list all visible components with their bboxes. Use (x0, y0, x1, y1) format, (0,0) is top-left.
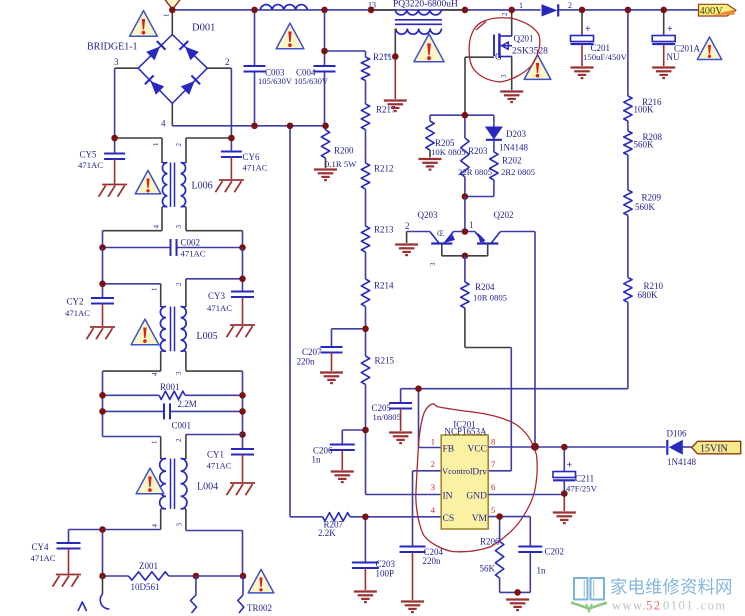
bridge pin label 4 (161, 119, 166, 129)
svg-text:!: ! (146, 472, 154, 497)
svg-text:Z001: Z001 (139, 561, 158, 571)
inductor L005 (160, 279, 217, 371)
svg-text:R213: R213 (374, 225, 394, 235)
junction top bus Q201-drain (508, 7, 515, 14)
junction L005 pin2 (239, 276, 246, 283)
Q201 pin label 3 (500, 74, 508, 78)
capacitor C202 (518, 547, 564, 593)
L005 pin label 3 (175, 371, 183, 375)
wire R204 to Drv (465, 308, 511, 471)
resistor R211 (361, 52, 392, 81)
transformer PQ3220 primary winding (395, 10, 441, 15)
junction AC bus R200 (322, 123, 329, 130)
connector caret mark (78, 602, 87, 611)
wire long vertical to R207 (289, 126, 291, 517)
ground below C201 (571, 68, 594, 79)
svg-text:150uF/450V: 150uF/450V (583, 52, 628, 62)
svg-text:CY2: CY2 (67, 297, 84, 307)
svg-text:10R 0805: 10R 0805 (473, 293, 507, 303)
svg-text:47F/25V: 47F/25V (566, 484, 598, 494)
svg-text:471AC: 471AC (31, 553, 56, 563)
svg-text:C203: C203 (376, 559, 396, 569)
capacitor CY2 (65, 297, 114, 327)
ground below Q203 base (395, 245, 418, 256)
junction VM bottom (514, 589, 521, 596)
wire bridge pin1 lead (171, 10, 173, 35)
capacitor CY6 (221, 138, 268, 179)
wire R217-R212 (365, 130, 367, 163)
node 1 label (469, 220, 474, 230)
junction L004 pin4 rail (99, 526, 106, 533)
svg-text:2: 2 (175, 282, 183, 286)
resistor R204 (461, 256, 507, 308)
bridge diode lower-left (145, 76, 164, 95)
svg-text:CY5: CY5 (80, 150, 98, 160)
watermark url (612, 599, 727, 613)
resistor R212 (361, 163, 393, 189)
wire VM bottom rail (500, 591, 531, 593)
svg-text:1n: 1n (537, 566, 547, 576)
svg-text:CY6: CY6 (243, 152, 261, 162)
wire Q203 base lead (407, 232, 430, 244)
svg-text:10D561: 10D561 (131, 582, 160, 592)
L006 pin label 2 (175, 143, 183, 147)
svg-text:471AC: 471AC (207, 461, 232, 471)
svg-text:100P: 100P (376, 569, 395, 579)
svg-text:1: 1 (151, 287, 159, 291)
svg-text:FB: FB (443, 445, 455, 455)
wire node1 vertical (464, 197, 466, 232)
wire right rail to CY3 (242, 248, 244, 292)
wire R213-R214 (365, 252, 367, 279)
transformer pin label 2 (383, 53, 391, 57)
junction Z001 right (240, 573, 247, 580)
Q201 pin label 2 (501, 12, 509, 16)
wire transformer secondary lead (394, 29, 396, 100)
resistor R202 (465, 140, 535, 197)
label TR002 (247, 603, 272, 613)
L006 pin label 4 (153, 225, 161, 229)
junction L005 pin1 (99, 281, 106, 288)
svg-text:3: 3 (429, 262, 437, 266)
svg-text:100K: 100K (634, 105, 655, 115)
wire L004 pin1 feed (103, 436, 161, 438)
IC201 pin 6 GND (466, 482, 495, 502)
wire bridge pin2 lead (207, 68, 231, 138)
transistor Q201 2SK3528 symbol (494, 34, 548, 63)
IC201 pin 1 FB (431, 437, 454, 455)
svg-text:D106: D106 (667, 429, 687, 439)
inductor filter coil on bus (260, 5, 307, 10)
svg-text:R204: R204 (475, 282, 495, 292)
svg-text:C211: C211 (575, 474, 594, 484)
capacitor CY4 (31, 530, 81, 574)
IC201 pin 2 Vcontrol (431, 459, 473, 476)
junction IN node (362, 427, 369, 434)
svg-text:L005: L005 (197, 331, 218, 342)
wire Vcontrol path (413, 471, 442, 547)
IC201 pin 4 CS (431, 505, 454, 524)
junction GND-C211 (561, 490, 568, 497)
warning triangle near L006 (135, 170, 161, 197)
svg-text:!: ! (706, 41, 713, 63)
diode D106 (667, 429, 697, 468)
svg-text:2R2 0805: 2R2 0805 (501, 167, 535, 177)
svg-text:2: 2 (405, 221, 410, 231)
ground below C207 (320, 373, 343, 384)
svg-text:4: 4 (153, 225, 161, 229)
ground below C205 (389, 433, 412, 444)
svg-text:3: 3 (114, 57, 119, 67)
ground below C211 (553, 513, 576, 524)
400V net flag (699, 4, 737, 16)
junction gate node (462, 112, 469, 119)
resistor R214 (361, 279, 394, 307)
bridge label BRIDGE1-1 (87, 42, 138, 53)
bridge pin label 2 (225, 57, 230, 67)
capacitor C203 (352, 517, 396, 590)
ground below R206 C202 (506, 600, 529, 611)
Q pair pin label 3 (429, 262, 437, 266)
wire C004 branch (324, 10, 326, 126)
wire VCC net (488, 446, 666, 448)
svg-text:R202: R202 (502, 156, 522, 166)
svg-text:1N4148: 1N4148 (667, 457, 696, 467)
svg-text:471AC: 471AC (207, 303, 232, 313)
svg-text:2: 2 (175, 143, 183, 147)
ground below C206 (331, 472, 354, 483)
capacitor CY5 (78, 138, 125, 184)
svg-text:220n: 220n (423, 556, 442, 566)
wire R211 top feed (325, 51, 366, 57)
bridge rectifier D001 outline (138, 35, 207, 104)
capacitor C002 (103, 238, 243, 259)
wire R chain top (627, 10, 629, 96)
svg-text:52: 52 (646, 599, 662, 613)
junction top bus Rchain (625, 7, 632, 14)
svg-text:Drv: Drv (472, 468, 487, 478)
transformer label PQ3220-6800uH (393, 0, 458, 10)
wire VM net (488, 517, 530, 547)
red hand-drawn circle around IC201 (416, 404, 537, 552)
svg-text:3: 3 (175, 225, 183, 229)
wire R215 to IN node (365, 385, 367, 431)
warning triangle between C003 and C004 (276, 23, 304, 52)
svg-text:0101: 0101 (663, 599, 694, 613)
diode pin label 2 (568, 1, 572, 10)
junction R203 bottom node (462, 193, 469, 200)
junction top bus C004 (321, 7, 328, 14)
ground below CY5 chassis (99, 185, 128, 197)
resistor R216 (624, 96, 662, 121)
L006 pin label 3 (175, 225, 183, 229)
Q203 pin label 2 (405, 221, 410, 231)
junction emitter rail (462, 253, 469, 260)
ground below C204 (401, 602, 424, 613)
wire L004 pin3 rail (186, 531, 243, 577)
junction top bus C003 (251, 7, 258, 14)
transformer pin label 13 (368, 1, 376, 10)
wire L006 pin4 to left rail (103, 231, 163, 248)
wire L006 to CY6 (186, 137, 231, 139)
wire to TR002 (238, 576, 244, 613)
ground below R205 (419, 159, 442, 170)
resistor R206 (480, 517, 504, 593)
svg-text:www.: www. (612, 599, 647, 613)
svg-text:G: G (495, 53, 502, 63)
svg-text:D001: D001 (192, 23, 215, 34)
svg-text:C001: C001 (172, 421, 192, 431)
wire R209-R210 (627, 215, 629, 277)
svg-text:!: ! (141, 323, 149, 348)
transistor Q202 (475, 210, 514, 256)
svg-text:VM: VM (472, 514, 488, 524)
ground below Q201 source (500, 92, 523, 103)
junction VM pin (496, 513, 503, 520)
wire R210 to FB node (401, 302, 628, 388)
capacitor C201 (571, 10, 628, 66)
junction node1 (462, 228, 469, 235)
svg-text:1: 1 (431, 437, 435, 447)
junction CY5 node (111, 135, 118, 142)
svg-text:R215: R215 (375, 356, 395, 366)
IC201 pin 3 IN (431, 482, 453, 502)
svg-text:CS: CS (443, 514, 455, 524)
wire Q201 source lead (511, 57, 513, 91)
junction C001 right (239, 408, 246, 415)
wire CY5 to L006 (115, 137, 162, 139)
svg-text:15VIN: 15VIN (700, 444, 728, 455)
svg-text:Q203: Q203 (418, 210, 438, 220)
ground below C201A (652, 68, 675, 79)
wire L004 pin2 feed (186, 434, 243, 436)
svg-text:4: 4 (161, 119, 166, 129)
svg-text:1n: 1n (312, 455, 322, 465)
svg-text:2.2K: 2.2K (318, 528, 336, 538)
svg-text:1: 1 (151, 440, 159, 444)
svg-text:R206: R206 (480, 537, 500, 547)
bridge diode upper-left (146, 41, 165, 60)
svg-text:3: 3 (176, 523, 184, 527)
junction FB node (415, 385, 422, 392)
svg-text:105/630V: 105/630V (258, 76, 293, 86)
junction C002 right (239, 244, 246, 251)
wire bridge pin4 lead (171, 103, 173, 125)
svg-text:Vcontrol: Vcontrol (442, 466, 473, 476)
wire to connector mid (191, 576, 197, 613)
wire Q202 to VCC vertical (500, 232, 535, 447)
svg-text:105/630V: 105/630V (294, 76, 329, 86)
svg-text:2SK3528: 2SK3528 (512, 47, 548, 57)
capacitor CY1 (207, 435, 255, 483)
junction CY1 top (239, 431, 246, 438)
warning triangle cut off at top edge (165, 0, 181, 10)
capacitor C003 (244, 66, 293, 86)
inductor L004 (160, 435, 218, 531)
wire bus black segment at transformer (371, 9, 465, 11)
15VIN net flag (692, 441, 741, 454)
ground below C203 (354, 592, 377, 603)
svg-text:4: 4 (151, 524, 159, 528)
svg-text:1n/0805: 1n/0805 (373, 412, 401, 422)
svg-text:Œ: Œ (437, 229, 444, 238)
svg-text:R217: R217 (376, 105, 396, 115)
L004 pin label 2 (175, 438, 183, 442)
svg-text:3: 3 (431, 482, 435, 492)
junction VCC-C211 (561, 444, 568, 451)
wire to connector left (100, 576, 109, 609)
wire L005 pin3 to right rail (186, 371, 243, 434)
svg-text:+: + (567, 460, 573, 471)
wire CS path (290, 516, 441, 518)
svg-text:471AC: 471AC (181, 249, 206, 259)
warning triangle near TR002 (248, 569, 274, 596)
svg-text:C002: C002 (181, 238, 201, 248)
bridge diode lower-right (181, 76, 200, 95)
svg-text:+: + (667, 24, 673, 35)
wire gate node horizontal (430, 114, 494, 116)
junction Z001 mid (193, 573, 200, 580)
wire node1 horizontal (454, 231, 475, 233)
watermark book icon (571, 578, 607, 611)
resistor R200 (321, 126, 357, 169)
wire C003 branch (254, 10, 256, 126)
ground below CY2 chassis (87, 327, 116, 339)
junction AC bus vert (287, 123, 294, 130)
wire FB node vertical (419, 389, 442, 448)
junction VCC-Q202 (531, 443, 539, 451)
svg-text:3: 3 (500, 74, 508, 78)
svg-text:PQ3220-6800uH: PQ3220-6800uH (393, 0, 458, 10)
junction node R211 top (321, 48, 328, 55)
svg-text:Q201: Q201 (514, 34, 534, 44)
wire L006 pin3 to right rail (186, 231, 243, 248)
resistor R210 (624, 278, 664, 303)
wire GND pin net (488, 494, 564, 496)
svg-text:680K: 680K (638, 290, 659, 300)
wire C211 to ground (563, 494, 565, 511)
svg-text:+: + (585, 24, 591, 35)
svg-text:8: 8 (491, 437, 495, 447)
svg-text:NCP1653A: NCP1653A (444, 427, 487, 437)
junction top bus C201A (660, 7, 667, 14)
svg-text:R212: R212 (374, 164, 394, 174)
transformer PQ3220 core (395, 20, 442, 25)
resistor R207 (318, 513, 350, 538)
L004 pin label 4 (151, 524, 159, 528)
warning triangle near transformer (414, 34, 444, 66)
svg-text:R200: R200 (334, 146, 354, 156)
junction top bus trafo-left (368, 7, 375, 14)
wire emitter rail (442, 255, 488, 257)
svg-text:2: 2 (431, 459, 435, 469)
svg-text:TR002: TR002 (247, 603, 272, 613)
ground below CY1 chassis (227, 483, 256, 495)
svg-text:471AC: 471AC (243, 163, 268, 173)
capacitor C004 (294, 66, 336, 86)
svg-text:R001: R001 (160, 382, 180, 392)
svg-text:CY3: CY3 (208, 291, 226, 301)
watermark chinese text (610, 577, 733, 597)
capacitor C206 (312, 430, 366, 470)
svg-text:Q202: Q202 (494, 210, 514, 220)
warning triangle near Q201 (524, 55, 551, 83)
svg-text:2: 2 (501, 12, 509, 16)
svg-text:!: ! (145, 173, 152, 197)
resistor R208 (624, 131, 663, 155)
svg-text:GND: GND (466, 492, 487, 502)
junction top bus bridge (169, 7, 176, 14)
svg-text:5: 5 (491, 505, 495, 515)
svg-text:7: 7 (491, 459, 495, 469)
diode D203 (485, 115, 529, 152)
junction CS-C203 (362, 514, 369, 521)
junction C207 node (362, 326, 369, 333)
svg-text:4: 4 (151, 372, 159, 376)
wire left rail to CY2 (102, 248, 104, 299)
svg-text:560K: 560K (634, 140, 655, 150)
transistor Q203 (418, 210, 456, 256)
wire IN node (366, 430, 442, 495)
svg-text:22R 0805: 22R 0805 (458, 167, 492, 177)
svg-text:1: 1 (152, 142, 160, 146)
wire R214 to C207 node (365, 307, 367, 357)
junction transformer secondary (392, 53, 399, 60)
junction R001 left (99, 392, 106, 399)
svg-text:NU: NU (667, 52, 680, 62)
capacitor C204 (400, 547, 444, 601)
svg-text:56K: 56K (480, 564, 496, 574)
svg-text:2: 2 (225, 57, 230, 67)
wire R208-R209 (627, 155, 629, 190)
capacitor C211 (553, 447, 598, 494)
wire L005 pin4 to left rail (103, 371, 161, 436)
wire AC bus lower (172, 125, 325, 127)
resistor R203 (458, 115, 492, 196)
svg-text:CY4: CY4 (32, 542, 50, 552)
junction CY6 node (228, 135, 235, 142)
bridge pin label 1 (163, 13, 171, 17)
warning triangle near L004 (136, 468, 164, 497)
capacitor C207 with feed (297, 329, 366, 371)
svg-text:R214: R214 (374, 281, 394, 291)
transformer PQ3220 secondary winding (396, 29, 442, 35)
svg-text:220n: 220n (297, 357, 316, 367)
svg-text:2.2M: 2.2M (178, 399, 197, 409)
junction top bus gate (462, 7, 469, 14)
junction AC bus C003b (251, 123, 258, 130)
warning triangle near C201A (697, 37, 721, 63)
op-amp IC201 NCP1653A box (441, 420, 488, 530)
capacitor C001 (103, 403, 243, 430)
resistor R001 (103, 382, 243, 409)
L005 pin label 4 (151, 372, 159, 376)
svg-text:!: ! (286, 27, 294, 52)
svg-text:1N4148: 1N4148 (499, 143, 528, 153)
resistor R209 (624, 190, 662, 215)
red hand-drawn circle around Q201 (469, 18, 540, 82)
svg-text:471AC: 471AC (78, 160, 103, 170)
svg-text:IN: IN (443, 492, 453, 502)
svg-text:1: 1 (469, 220, 474, 230)
IC201 pin 8 VCC (467, 437, 495, 455)
junction C001 left (99, 408, 106, 415)
L004 pin label 3 (176, 523, 184, 527)
svg-text:!: ! (140, 15, 148, 40)
svg-text:C207: C207 (302, 347, 322, 357)
svg-text:6: 6 (491, 482, 495, 492)
capacitor CY3 (207, 291, 254, 324)
